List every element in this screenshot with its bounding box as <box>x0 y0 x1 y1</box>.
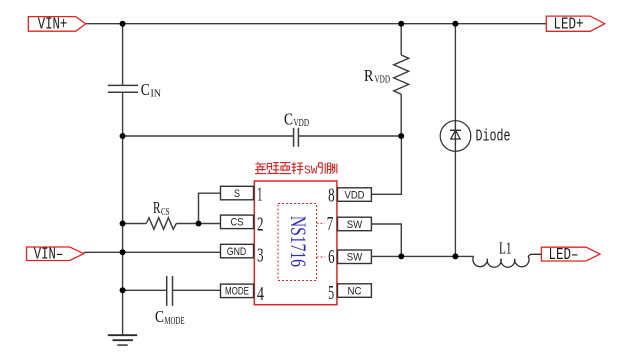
wire: S pin riser <box>199 193 221 223</box>
flag VIN+ <box>28 15 85 34</box>
svg-text:4: 4 <box>257 283 264 305</box>
junction mid C_IN <box>120 133 126 139</box>
svg-text:CS: CS <box>161 207 170 218</box>
wire: R_CS right lead to CS node <box>176 223 220 225</box>
wire: mid rail left (to C_VDD) <box>123 135 294 137</box>
red dashed link pad to pin 6 <box>317 256 326 258</box>
pin box SW7 <box>338 217 372 231</box>
capacitor C_MODE <box>155 276 185 327</box>
ground <box>108 335 137 345</box>
svg-text:R: R <box>153 198 161 217</box>
IC U1 body <box>254 181 337 305</box>
svg-text:7: 7 <box>327 213 334 235</box>
wire: VIN- to GND pin <box>84 251 221 253</box>
pin box S <box>221 186 254 200</box>
resistor R_CS <box>146 198 176 229</box>
capacitor C_IN <box>108 80 162 100</box>
wire: top rail VIN+ to LED+ <box>86 23 547 25</box>
pin box MODE <box>221 284 254 298</box>
junction C_MODE rail <box>120 287 126 293</box>
svg-text:S: S <box>234 188 240 200</box>
pin box GND <box>221 244 254 258</box>
resistor R_VDD <box>364 55 409 94</box>
pin box SW6 <box>338 250 372 264</box>
svg-text:LED+: LED+ <box>554 14 584 33</box>
flag VIN- <box>27 245 84 264</box>
junction R_CS rail <box>120 221 126 227</box>
diode D1 <box>440 121 510 152</box>
wire: R_VDD top lead <box>400 24 402 55</box>
wire: SW pin7 to SW rail <box>371 224 401 256</box>
svg-text:3: 3 <box>257 245 264 267</box>
wire: C_MODE right lead to MODE pin <box>173 289 221 291</box>
red dashed link pad to pin 7 <box>317 222 326 224</box>
svg-text:VDD: VDD <box>294 118 310 129</box>
svg-text:1: 1 <box>257 183 263 205</box>
capacitor C_VDD <box>284 109 309 147</box>
svg-text:C: C <box>141 80 150 99</box>
wire: left rail C_IN to mid rail <box>122 92 124 136</box>
svg-text:LED–: LED– <box>549 245 579 264</box>
svg-text:C: C <box>155 307 164 326</box>
svg-text:C: C <box>284 109 293 128</box>
IC U1 thermal pad (dotted) <box>278 204 317 281</box>
junction top C_IN <box>120 21 126 27</box>
wire: C_MODE left lead <box>123 289 167 291</box>
svg-text:L1: L1 <box>499 238 512 257</box>
svg-text:CS: CS <box>231 217 244 229</box>
wire: R_CS left lead <box>123 223 147 225</box>
svg-text:8: 8 <box>328 185 335 207</box>
svg-text:SW: SW <box>347 252 363 264</box>
inductor L1 <box>473 238 541 267</box>
svg-text:SW: SW <box>304 164 318 177</box>
svg-text:NS1716: NS1716 <box>285 216 309 267</box>
pin box CS <box>221 215 254 229</box>
pin box NC <box>338 284 372 298</box>
junction SW rail left <box>398 253 404 259</box>
junction mid R_VDD <box>398 133 404 139</box>
svg-text:R: R <box>364 66 374 85</box>
junction VIN- rail <box>120 249 126 255</box>
svg-text:NC: NC <box>348 285 362 297</box>
svg-text:MODE: MODE <box>225 286 249 298</box>
wire: left rail C_IN junction down to ground <box>122 136 124 335</box>
svg-text:GND: GND <box>227 246 247 258</box>
svg-text:5: 5 <box>328 282 334 304</box>
svg-text:MODE: MODE <box>165 316 185 327</box>
wire: R_VDD bottom lead <box>400 94 402 136</box>
svg-text:VDD: VDD <box>375 75 391 86</box>
flag LED+ <box>546 14 605 33</box>
pin box VDD <box>338 188 372 202</box>
wire: diode branch vertical (top rail down through diode to SW rail) <box>454 24 456 257</box>
svg-text:VIN+: VIN+ <box>38 15 68 34</box>
junction top R_VDD <box>398 21 404 27</box>
wire: left rail upper segment (top rail to C_IN) <box>122 24 124 86</box>
junction CS node <box>196 221 202 227</box>
svg-text:IN: IN <box>151 89 162 100</box>
svg-text:VIN–: VIN– <box>34 245 64 264</box>
note: bottom pad connect SW pin (red Chinese text) <box>255 162 303 174</box>
svg-text:2: 2 <box>257 213 264 235</box>
svg-text:6: 6 <box>328 246 335 268</box>
wire: SW rail to inductor <box>371 255 473 257</box>
junction SW rail diode <box>452 253 458 259</box>
wire: mid rail right (C_VDD to R_VDD bottom) <box>298 135 401 137</box>
flag LED- <box>541 245 600 264</box>
svg-text:VDD: VDD <box>345 189 365 201</box>
wire: VDD pin to R_VDD bottom <box>371 136 401 194</box>
svg-text:SW: SW <box>347 219 363 231</box>
svg-text:Diode: Diode <box>476 127 511 146</box>
junction top diode <box>452 21 458 27</box>
